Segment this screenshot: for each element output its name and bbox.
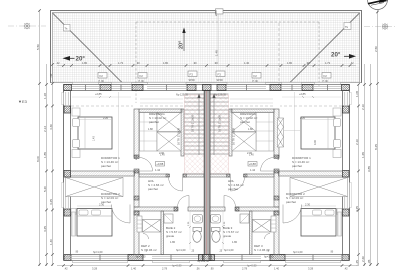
svg-text:F2: F2: [254, 74, 258, 78]
left wall column 3: [64, 209, 71, 216]
slope arrow left: [63, 56, 71, 61]
svg-text:1.25: 1.25: [355, 260, 359, 266]
svg-text:parchet: parchet: [148, 187, 158, 191]
svg-text:16 TR 17,5x28: 16 TR 17,5x28: [232, 127, 236, 145]
svg-text:+0,88: +0,88: [156, 162, 164, 166]
svg-text:3.28: 3.28: [92, 267, 98, 270]
roof grid hatch: [53, 13, 361, 83]
hip line left: [53, 13, 123, 83]
top wall column 4: [187, 85, 196, 91]
window sill top 3: [148, 82, 187, 84]
bath shower: [164, 214, 173, 223]
svg-text:2.80: 2.80: [214, 10, 218, 16]
dressing top wall: [139, 109, 182, 112]
svg-text:3.28: 3.28: [308, 267, 314, 270]
dep door arc: [143, 234, 149, 240]
left dim texts: [36, 44, 53, 245]
bottom wall window 2: [152, 255, 190, 257]
marker square on left hip: [64, 25, 71, 32]
roof eave bottom line: [51, 82, 362, 84]
axis marker right: [364, 23, 396, 29]
svg-text:8.25: 8.25: [374, 144, 378, 150]
svg-text:hp=1,00: hp=1,00: [93, 250, 103, 254]
top dim line: [57, 65, 356, 67]
interior wall vertical rooms/hall lower: [134, 171, 139, 207]
door jamb block 4: [134, 211, 139, 215]
svg-text:.90: .90: [210, 267, 214, 270]
north circle: [368, 0, 388, 13]
marker square on right hip: [344, 23, 351, 30]
svg-text:P .90: P .90: [99, 81, 105, 83]
level box +0.88 right: [248, 162, 257, 167]
svg-text:1.80: 1.80: [287, 61, 293, 65]
right dim column: [359, 12, 378, 266]
interior wall vertical rooms/hall upper: [134, 109, 139, 157]
window sill top 2: [112, 82, 132, 84]
dim line dorm1 vertical: [118, 92, 120, 170]
svg-text:1.44: 1.44: [155, 168, 161, 172]
svg-text:16 TR 17,5x28: 16 TR 17,5x28: [218, 114, 222, 132]
left dim column: [40, 10, 53, 266]
dim line dorm1 right: [284, 130, 302, 132]
bed dorm2: [77, 209, 112, 237]
hip line right: [290, 13, 360, 83]
hol landing wall right: [183, 174, 204, 177]
dashed attic outline horizontal: [136, 21, 319, 23]
party wall: [204, 91, 210, 255]
svg-text:F2: F2: [100, 74, 104, 78]
bottom dim numbers: [64, 267, 348, 270]
svg-text:16 TR 17,5x28: 16 TR 17,5x28: [191, 114, 195, 132]
svg-text:1.80: 1.80: [170, 240, 176, 244]
dashed slope line stairhall: [140, 105, 183, 107]
right dim texts: [355, 46, 378, 266]
svg-text:1.18: 1.18: [43, 93, 47, 99]
radiator dorm2 wall: [72, 212, 76, 236]
window mullion top: [85, 85, 87, 91]
window sill left 1: [62, 93, 64, 105]
svg-text:.56: .56: [196, 267, 200, 270]
top wall column corner: [64, 85, 72, 91]
roof border inner: [53, 13, 360, 84]
bottom wall window small center: [190, 255, 199, 257]
svg-text:2.10: 2.10: [355, 139, 359, 145]
svg-text:5.20: 5.20: [43, 186, 47, 192]
radiator dorm2: [137, 216, 142, 232]
svg-text:1.88: 1.88: [148, 128, 153, 131]
svg-text:1.80: 1.80: [82, 61, 88, 65]
top wall column 3: [132, 85, 143, 91]
svg-text:1.40: 1.40: [49, 239, 53, 245]
svg-text:1.08: 1.08: [355, 91, 359, 97]
svg-text:.90: .90: [214, 61, 218, 65]
dep duct X: [143, 220, 161, 233]
interior dimension texts: [93, 116, 317, 244]
svg-text:parchet: parchet: [228, 187, 238, 191]
svg-text:hp=1,00: hp=1,00: [176, 248, 186, 252]
party wall top column: [203, 85, 212, 91]
interior wall dorm1/dorm2: [71, 171, 135, 176]
door arc hol to dorm2: [112, 205, 131, 224]
svg-text:parchet: parchet: [292, 164, 302, 168]
bed dorm1: [78, 117, 112, 149]
svg-text:.42: .42: [344, 267, 348, 270]
level box +0.88 left: [156, 162, 165, 167]
door arc dorm1 to hol: [139, 158, 153, 172]
bottom wall column 3: [199, 255, 205, 261]
window sill bottom 2: [153, 261, 190, 263]
svg-text:3.25: 3.25: [355, 206, 359, 212]
svg-text:2.14: 2.14: [43, 126, 47, 132]
micro dim line under top window: [72, 96, 131, 98]
svg-text:P .90: P .90: [323, 81, 329, 83]
svg-text:1.73: 1.73: [118, 61, 124, 65]
svg-text:2.50: 2.50: [374, 46, 378, 52]
svg-text:F2: F2: [324, 74, 328, 78]
svg-text:.90: .90: [136, 61, 140, 65]
left wall column 1: [64, 106, 71, 113]
door jamb block 5: [166, 174, 170, 177]
svg-text:.42: .42: [49, 73, 53, 78]
dim line dorm1 horizontal: [78, 119, 112, 121]
svg-text:1.80: 1.80: [232, 240, 238, 244]
svg-text:.42: .42: [350, 61, 354, 65]
interior wall dep/bath: [161, 211, 164, 255]
chimney box on ridge: [216, 9, 224, 14]
dashed attic outline right vertical: [318, 22, 320, 86]
svg-text:1.85: 1.85: [43, 152, 47, 158]
stairs walk line: [198, 96, 200, 155]
svg-text:hp=1,00: hp=1,00: [136, 255, 146, 259]
svg-text:P .90: P .90: [253, 81, 259, 83]
svg-text:16 TR 17,5x28: 16 TR 17,5x28: [177, 127, 181, 145]
svg-text:9.85: 9.85: [367, 166, 371, 172]
room labels right unit: [223, 112, 311, 252]
svg-text:.42: .42: [56, 61, 60, 65]
party wall bottom column: [203, 255, 212, 261]
svg-text:P .90: P .90: [139, 81, 145, 83]
svg-text:2.30: 2.30: [305, 203, 311, 207]
pillow bed2: [79, 210, 88, 215]
nightstand bottom: [72, 150, 80, 158]
svg-text:F2: F2: [140, 74, 144, 78]
stair red crosshatch: [185, 95, 205, 174]
nightstand top: [72, 108, 80, 116]
svg-text:F3: F3: [190, 72, 194, 76]
bath wc: [193, 228, 202, 232]
svg-text:5.50: 5.50: [36, 44, 40, 50]
top dim numbers: [56, 61, 354, 65]
svg-text:1.40: 1.40: [244, 61, 250, 65]
axis marker left: [8, 23, 46, 29]
room labels left unit: [101, 112, 182, 252]
left wall window 1: [65, 92, 67, 105]
svg-text:2.14: 2.14: [276, 154, 280, 160]
top wall window 1: [72, 85, 99, 87]
svg-text:3.25: 3.25: [43, 226, 47, 232]
roof plan: [51, 9, 362, 103]
svg-text:Np 129,35: Np 129,35: [214, 93, 227, 97]
svg-text:2.20: 2.20: [103, 116, 109, 120]
wardrobe dorm2: [66, 178, 124, 197]
svg-text:+2,85: +2,85: [299, 92, 306, 96]
svg-text:2.14: 2.14: [134, 154, 138, 160]
dressing closet X lower: [157, 132, 181, 151]
svg-text:1.73: 1.73: [325, 61, 331, 65]
pillow 1: [73, 119, 80, 127]
stairs treads: [185, 94, 205, 154]
svg-text:1.40: 1.40: [274, 267, 280, 270]
svg-text:hp=1,00: hp=1,00: [264, 255, 274, 259]
svg-text:hp=1,00: hp=1,00: [224, 248, 234, 252]
roof dim line center: [217, 14, 219, 65]
svg-text:20°: 20°: [179, 41, 185, 49]
window label boxes top: [98, 71, 331, 83]
left wall column 2: [64, 171, 71, 178]
door jamb block 1: [134, 155, 139, 159]
svg-text:2.10: 2.10: [361, 104, 365, 110]
right unit mirrored: [207, 82, 352, 262]
window sill bottom 1: [73, 261, 128, 263]
window sill left 2: [62, 183, 64, 208]
balustrade lines: [140, 98, 183, 100]
bottom wall column 2: [128, 255, 143, 261]
svg-text:2.20: 2.20: [300, 116, 306, 120]
svg-text:2.30: 2.30: [99, 203, 105, 207]
svg-text:1.80: 1.80: [163, 61, 169, 65]
window sill top 1: [73, 82, 99, 84]
left wall lines: [63, 85, 65, 261]
svg-text:1.65: 1.65: [361, 152, 365, 158]
door jamb block 2: [134, 169, 139, 173]
interior wall vertical hall/dorm2 lower: [134, 211, 139, 255]
top wall window 3 stair: [147, 85, 186, 87]
svg-text:Ts: Ts: [345, 25, 349, 29]
svg-text:Np 122,30: Np 122,30: [197, 259, 210, 263]
pillow 2: [73, 140, 80, 148]
svg-text:parchet: parchet: [101, 164, 111, 168]
slope arrow up center: [182, 28, 185, 34]
dashed attic outline left vertical: [135, 22, 137, 103]
bottom wall window 1: [72, 255, 128, 257]
svg-text:1.48: 1.48: [214, 50, 218, 56]
dashed line inner right: [278, 23, 280, 84]
svg-text:gresie: gresie: [223, 234, 232, 238]
svg-text:parchet: parchet: [240, 120, 250, 124]
svg-text:+2,85: +2,85: [95, 92, 102, 96]
svg-text:2.78: 2.78: [162, 267, 168, 270]
radiator dorm1 right: [278, 118, 284, 147]
top dim ticks: [62, 64, 351, 67]
svg-text:.90: .90: [193, 61, 197, 65]
nightstand bed2: [71, 209, 76, 215]
svg-text:Np 129,35: Np 129,35: [176, 93, 189, 97]
hol landing wall left: [139, 174, 168, 177]
svg-text:.95: .95: [367, 259, 371, 264]
svg-text:4.30: 4.30: [49, 124, 53, 130]
left wall window 2: [65, 182, 67, 208]
svg-text:20°: 20°: [331, 52, 341, 59]
bath door arc: [178, 196, 190, 208]
svg-text:1.40: 1.40: [249, 154, 254, 157]
bottom wall lines: [64, 254, 207, 256]
dashed slope line dorm1: [66, 105, 133, 107]
svg-text:1.40: 1.40: [160, 154, 165, 157]
bottom dim ticks: [62, 264, 351, 267]
svg-text:parchet: parchet: [149, 120, 159, 124]
svg-text:.90: .90: [306, 61, 310, 65]
bath sink: [193, 215, 203, 224]
svg-text:.42: .42: [64, 267, 68, 270]
window mullion bottom: [99, 255, 101, 261]
top wall column 2: [100, 85, 111, 91]
micro dim line bath vertical: [189, 212, 191, 250]
svg-text:2.60: 2.60: [361, 256, 365, 262]
slope arrow right: [349, 54, 356, 59]
svg-text:1.44: 1.44: [250, 168, 256, 172]
top wall window 2: [111, 85, 131, 87]
door jamb block 3: [134, 196, 139, 200]
svg-text:parchet: parchet: [286, 200, 296, 204]
svg-text:8.00: 8.00: [36, 156, 40, 162]
svg-text:4.00: 4.00: [313, 139, 317, 145]
svg-text:▼E3: ▼E3: [18, 99, 28, 104]
dressing/stair divider wall: [181, 109, 184, 156]
svg-text:3.25: 3.25: [49, 199, 53, 205]
svg-text:+0,88: +0,88: [249, 162, 257, 166]
svg-text:F3: F3: [218, 72, 222, 76]
svg-text:SP.90: SP.90: [189, 79, 196, 82]
svg-text:2.78: 2.78: [242, 267, 248, 270]
svg-text:1.88: 1.88: [248, 128, 253, 131]
dressing closet X upper: [157, 113, 181, 132]
interior wall hall/bath+dep horizontal: [134, 207, 177, 211]
top wall base lines: [64, 84, 207, 86]
dressing closet shelves: [140, 113, 158, 152]
svg-text:1.40: 1.40: [93, 136, 96, 141]
svg-text:SP.90: SP.90: [217, 79, 224, 82]
dim line dorm2: [77, 205, 112, 207]
bottom dim line: [57, 265, 356, 267]
roof border outer: [51, 11, 362, 84]
svg-text:gresie: gresie: [166, 234, 175, 238]
door jamb block 6: [183, 174, 187, 177]
door jamb block 7: [174, 207, 178, 211]
teal elevation marks: [93, 92, 306, 268]
svg-text:hp=1,00: hp=1,00: [293, 250, 303, 254]
svg-text:Ts: Ts: [65, 27, 69, 31]
door arc landing to hol: [169, 177, 183, 191]
svg-text:1.40: 1.40: [131, 267, 137, 270]
bottom wall corner column: [64, 255, 71, 261]
